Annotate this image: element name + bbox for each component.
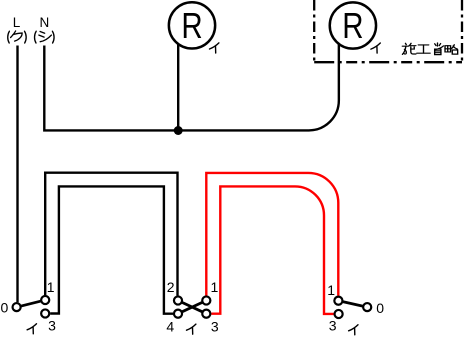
- svg-text:1: 1: [47, 279, 55, 295]
- switch S2 terminal 3: [202, 310, 210, 318]
- lamp R2 (イ) in omitted box: [330, 2, 376, 48]
- kanji 略: [445, 45, 458, 54]
- switch S1 (3-way) lever 0-1: [18, 300, 44, 307]
- lamp R2 label イ: [371, 43, 380, 53]
- wire L vertical: [16, 46, 18, 303]
- switch S3 terminal 1: [334, 297, 342, 305]
- construction-omitted dash-dot box: [314, 0, 462, 62]
- switch S2 terminal 2: [174, 296, 182, 304]
- kanji 施: [402, 43, 416, 54]
- switch S2 terminal 4: [174, 310, 182, 318]
- wire red loop inner: middle sw 3 to right sw 3: [211, 186, 333, 314]
- wire red loop outer: middle sw 1 to right sw 1: [206, 173, 338, 296]
- svg-text:3: 3: [211, 319, 219, 335]
- switch S2 lever 4-1: [178, 301, 206, 314]
- switch S3 terminal 0: [363, 303, 371, 311]
- lamp R1 (イ): [169, 2, 215, 48]
- switch S1 terminal 0: [13, 303, 21, 311]
- svg-text:0: 0: [376, 300, 384, 316]
- wire black loop inner: left sw 3 to middle sw 4: [50, 186, 173, 313]
- svg-text:R: R: [342, 5, 363, 45]
- junction dot: [174, 126, 183, 135]
- kanji 省: [435, 43, 444, 55]
- switch S2 terminal 1: [202, 296, 210, 304]
- wire N vertical + main horizontal + curve up to lamp R2: [44, 44, 339, 130]
- svg-text:1: 1: [211, 279, 219, 295]
- svg-text:3: 3: [329, 318, 337, 334]
- lamp R1 label イ: [210, 43, 219, 53]
- svg-text:N: N: [40, 15, 50, 30]
- svg-text:3: 3: [48, 318, 56, 334]
- label 施工省略: [402, 43, 457, 55]
- wire lamp R1 drop to junction: [177, 44, 179, 132]
- svg-text:0: 0: [1, 300, 9, 316]
- switch S2 (4-way) lever 2-3: [178, 301, 206, 314]
- svg-text:1: 1: [327, 282, 335, 298]
- svg-text:L: L: [13, 15, 21, 30]
- switch S1 terminal 1: [41, 296, 49, 304]
- switch S3 label イ: [349, 325, 358, 335]
- node L (ク) phase mark: [8, 31, 26, 43]
- switch S3 terminal 3: [335, 310, 343, 318]
- switch S1 terminal 3: [41, 309, 49, 317]
- kanji 工: [417, 45, 430, 53]
- switch S2 label イ: [187, 324, 196, 334]
- svg-text:4: 4: [166, 319, 174, 335]
- switch S3 (3-way) lever 1-0: [340, 301, 366, 307]
- svg-text:2: 2: [167, 279, 175, 295]
- switch S1 label イ: [27, 324, 36, 334]
- svg-text:R: R: [181, 5, 202, 45]
- wire black loop outer: left sw 1 to middle sw 2: [45, 173, 177, 296]
- node N (シ) phase mark: [35, 31, 55, 43]
